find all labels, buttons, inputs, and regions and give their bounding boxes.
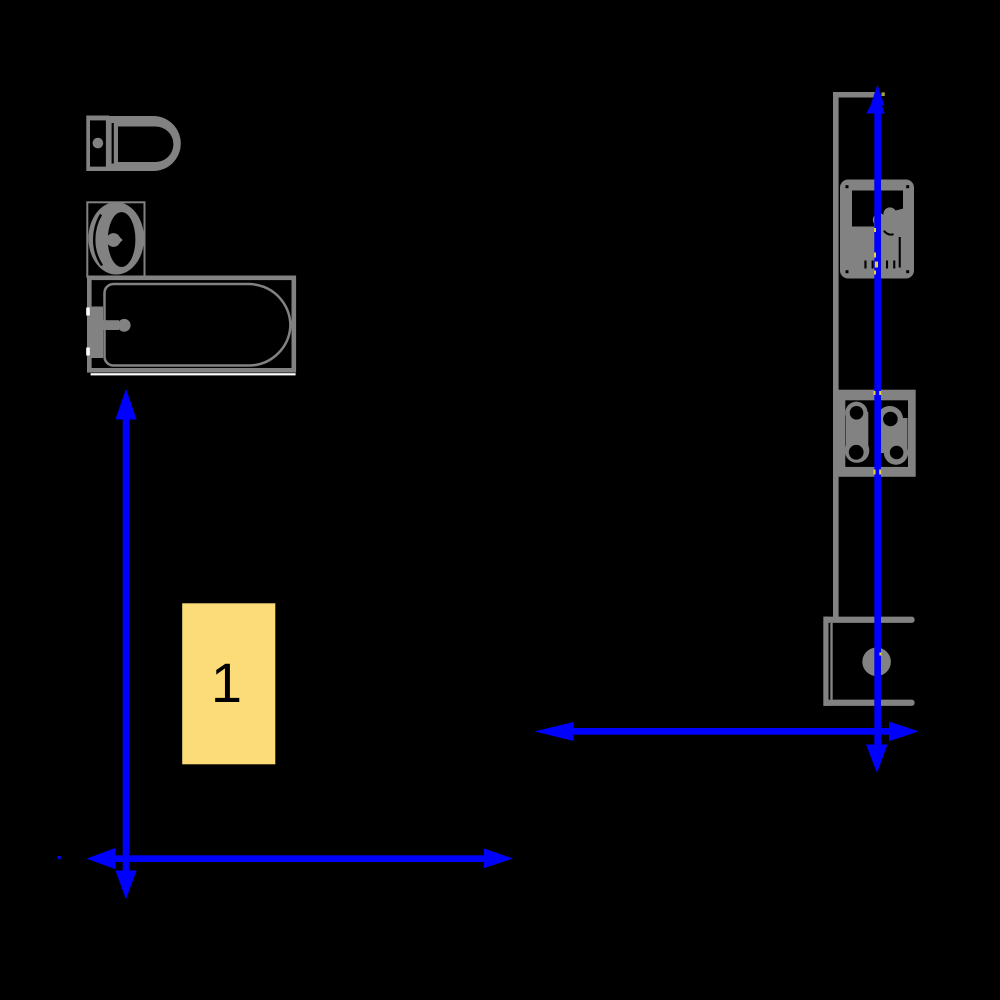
- dimension line vertical right: [866, 85, 888, 774]
- dimension line horizontal right: [535, 722, 919, 742]
- toilet cistern: [86, 116, 109, 172]
- kitchen sink unit: [840, 180, 914, 279]
- dimension origin dot bottom-left: [58, 856, 61, 859]
- bathtub rim: [89, 278, 293, 371]
- bathtub tap: [90, 307, 130, 359]
- bathtub wall tick bottom: [86, 348, 90, 356]
- washbasin counter: [87, 202, 144, 276]
- wall guide corner top-right: [833, 92, 885, 619]
- bathtub inner: [105, 284, 291, 366]
- bathtub white base line: [91, 373, 296, 375]
- svg-text:1: 1: [211, 651, 242, 714]
- dimension line vertical left: [115, 389, 136, 900]
- bathtub wall tick top: [86, 308, 90, 316]
- dimension line horizontal bottom: [86, 848, 513, 869]
- washbasin bowl: [88, 202, 144, 274]
- cooktop: [835, 390, 915, 477]
- room label 1: [182, 603, 275, 764]
- toilet bowl: [107, 116, 181, 171]
- base cabinet with sink circle: [823, 617, 914, 706]
- yellow dash marks on right dimension line: [874, 228, 882, 656]
